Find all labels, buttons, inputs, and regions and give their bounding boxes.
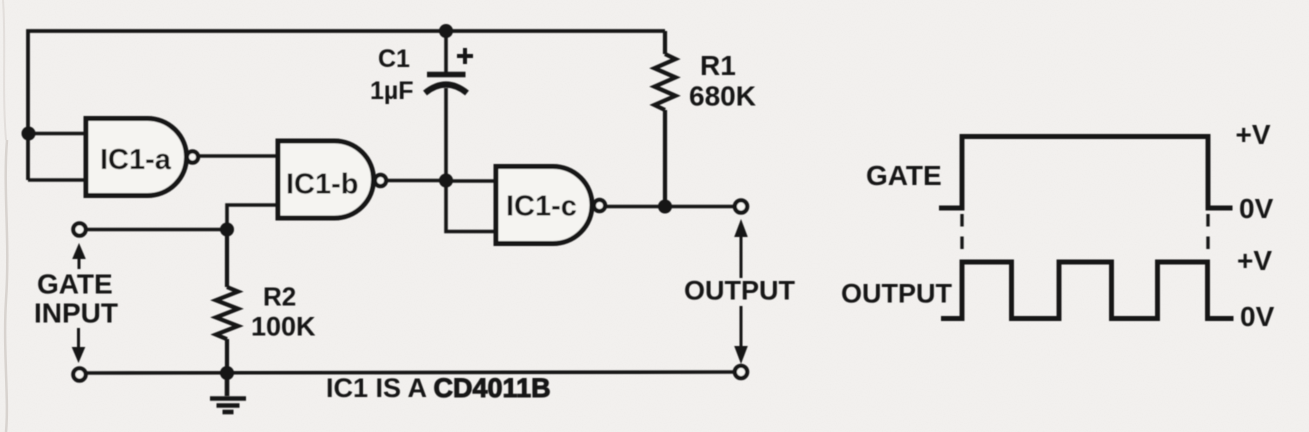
terminal output top xyxy=(735,200,747,212)
junction dot left rail xyxy=(22,127,36,141)
wire capacitor branch vertical xyxy=(444,31,448,72)
junction dot output node xyxy=(658,200,672,214)
svg-text:1µF: 1µF xyxy=(370,77,414,105)
resistor R1 xyxy=(655,31,676,207)
svg-text:0V: 0V xyxy=(1240,301,1275,332)
NAND gate IC1-b xyxy=(278,141,386,218)
wire IC1-b lower input xyxy=(227,205,278,230)
svg-text:GATE: GATE xyxy=(866,160,942,191)
svg-text:680K: 680K xyxy=(689,81,756,112)
timing diagram: output waveform xyxy=(941,262,1234,319)
wire IC1-c lower input xyxy=(446,181,496,232)
polarity plus sign C1 xyxy=(457,48,473,64)
junction dot top rail / C1 xyxy=(439,24,453,38)
NAND gate IC1-a xyxy=(86,119,198,196)
arrow output down xyxy=(734,306,748,364)
wire IC1-a upper input xyxy=(28,132,86,136)
svg-text:R2: R2 xyxy=(263,282,296,312)
arrow gate input up xyxy=(72,243,86,269)
timing diagram: dashed line right xyxy=(1206,214,1209,253)
junction dot IC1-b output node xyxy=(439,174,453,188)
svg-text:IC1-b: IC1-b xyxy=(286,169,359,201)
capacitor C1 xyxy=(425,75,467,94)
svg-text:C1: C1 xyxy=(378,45,410,73)
svg-text:INPUT: INPUT xyxy=(34,298,118,329)
svg-text:OUTPUT: OUTPUT xyxy=(684,276,796,306)
svg-text:R1: R1 xyxy=(700,50,736,81)
svg-text:+V: +V xyxy=(1236,119,1271,150)
terminal output bottom xyxy=(735,366,747,378)
timing diagram: dashed line left xyxy=(960,214,963,253)
resistor R2 xyxy=(216,230,238,374)
wire bottom rail xyxy=(87,372,734,373)
terminal gate input bottom xyxy=(73,368,85,380)
svg-text:OUTPUT: OUTPUT xyxy=(841,279,953,309)
wire IC1-c output xyxy=(605,205,736,209)
wire GATE input top xyxy=(87,228,227,232)
timing diagram: gate waveform xyxy=(939,137,1233,209)
wire IC1-b output to node xyxy=(386,179,446,183)
arrow output up xyxy=(734,219,748,278)
svg-text:IC1-c: IC1-c xyxy=(506,191,577,223)
junction dot gate input node xyxy=(220,223,234,237)
svg-text:GATE: GATE xyxy=(37,269,113,300)
junction dot bottom rail / ground xyxy=(220,366,234,380)
svg-text:IC1 IS A CD4011B: IC1 IS A CD4011B xyxy=(326,373,551,403)
arrow gate input down xyxy=(72,328,86,363)
svg-text:100K: 100K xyxy=(251,312,316,342)
left edge crease xyxy=(5,140,7,432)
svg-text:+V: +V xyxy=(1237,245,1272,276)
wire IC1-a lower input xyxy=(28,178,86,182)
terminal gate input top xyxy=(73,223,85,235)
wire IC1-c upper input xyxy=(446,179,496,183)
wire IC1-a output to IC1-b input xyxy=(198,154,278,158)
NAND gate IC1-c xyxy=(496,167,605,244)
ground xyxy=(210,373,246,412)
wire top rail xyxy=(28,31,665,180)
svg-text:IC1-a: IC1-a xyxy=(100,144,172,176)
svg-text:0V: 0V xyxy=(1239,193,1274,224)
